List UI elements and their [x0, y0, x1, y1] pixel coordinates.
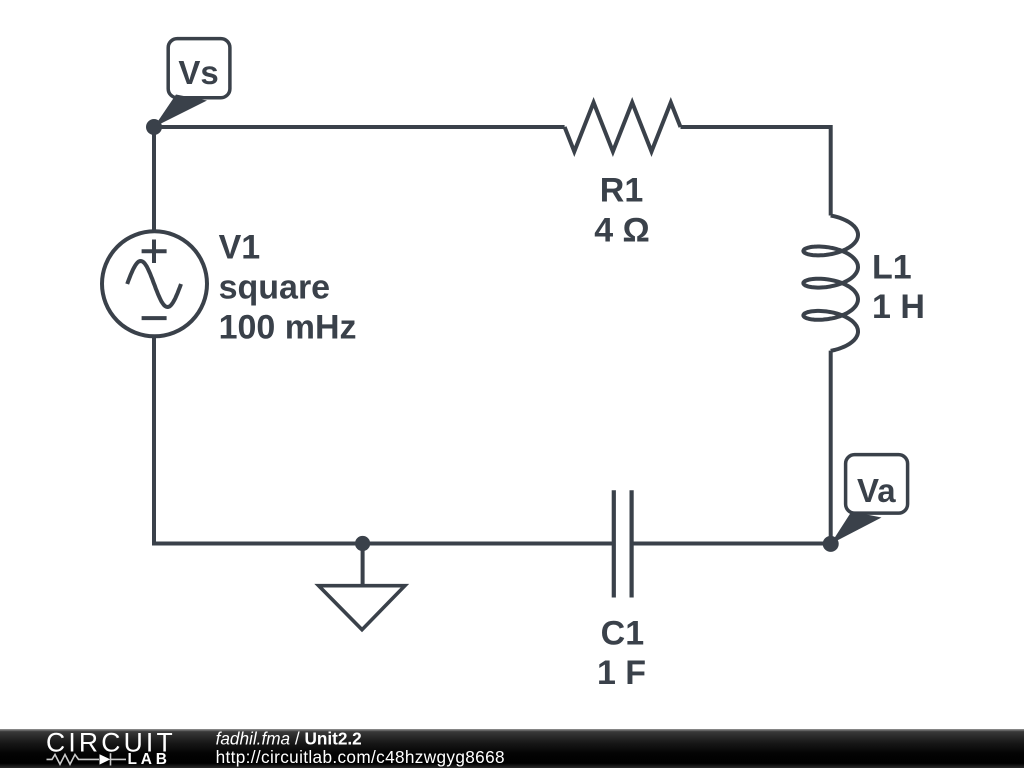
ground symbol triangle — [319, 586, 405, 630]
V1 minus sign — [142, 316, 167, 320]
svg-text:Va: Va — [857, 472, 896, 509]
svg-text:square: square — [219, 268, 331, 306]
ground stub wire — [361, 544, 365, 586]
wire top-left horizontal from node Vs to resistor R1 — [154, 125, 565, 129]
svg-text:V1: V1 — [219, 229, 261, 267]
V1 sine wave — [127, 261, 181, 307]
V1 plus sign — [142, 240, 167, 264]
svg-text:1 F: 1 F — [597, 654, 646, 692]
wire resistor to top-right corner, down to inductor — [681, 127, 831, 216]
node label box Vs — [168, 39, 230, 98]
svg-text:R1: R1 — [600, 172, 643, 210]
voltage source V1 circle — [102, 231, 207, 336]
Va balloon tail — [831, 512, 882, 544]
svg-text:http://circuitlab.com/c48hzwgy: http://circuitlab.com/c48hzwgyg8668 — [216, 747, 505, 767]
wire inductor bottom to node Va — [829, 351, 833, 544]
wire capacitor left plate to bottom-left corner and up to source — [154, 336, 614, 544]
svg-text:1 H: 1 H — [872, 288, 925, 326]
footer bar — [0, 729, 1024, 768]
resistor R1 — [565, 103, 681, 152]
svg-text:LAB: LAB — [128, 751, 171, 768]
svg-text:4 Ω: 4 Ω — [594, 211, 650, 249]
node dot Vs — [146, 119, 162, 135]
wire node Vs down to source top — [152, 127, 156, 233]
svg-text:L1: L1 — [872, 249, 912, 287]
capacitor C1 plates — [614, 490, 632, 597]
svg-text:fadhil.fma / Unit2.2: fadhil.fma / Unit2.2 — [216, 729, 362, 749]
wire bottom right: node Va to capacitor right plate — [632, 542, 831, 546]
Vs balloon tail — [154, 95, 207, 128]
footer logo resistor-diode glyph — [47, 753, 127, 765]
node dot ground — [355, 536, 370, 551]
footer logo diode triangle — [100, 754, 111, 764]
svg-text:Vs: Vs — [178, 54, 218, 91]
svg-text:100 mHz: 100 mHz — [219, 308, 357, 346]
node label box Va — [846, 455, 908, 513]
inductor L1 coil — [803, 216, 858, 351]
svg-text:C1: C1 — [601, 614, 644, 652]
node dot Va — [823, 536, 839, 552]
